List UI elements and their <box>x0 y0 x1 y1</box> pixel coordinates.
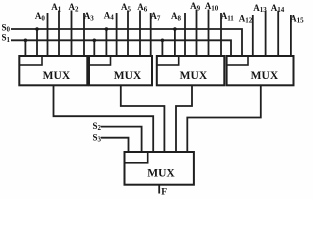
svg-text:MUX: MUX <box>180 70 208 82</box>
svg-text:S3: S3 <box>93 132 102 143</box>
svg-text:A6: A6 <box>137 2 148 13</box>
svg-text:A15: A15 <box>290 14 304 25</box>
svg-text:A1: A1 <box>51 2 62 13</box>
svg-text:S1: S1 <box>2 33 11 44</box>
svg-text:A13: A13 <box>253 3 267 14</box>
svg-text:A14: A14 <box>271 3 285 14</box>
svg-text:MUX: MUX <box>114 70 142 82</box>
svg-text:A7: A7 <box>150 11 161 22</box>
svg-text:A0: A0 <box>35 11 46 22</box>
svg-text:A12: A12 <box>239 14 253 25</box>
svg-text:A10: A10 <box>205 1 219 12</box>
svg-text:A2: A2 <box>69 2 80 13</box>
svg-text:MUX: MUX <box>43 70 71 82</box>
svg-text:A9: A9 <box>190 1 201 12</box>
svg-text:A11: A11 <box>221 11 235 22</box>
svg-text:A8: A8 <box>171 11 182 22</box>
svg-text:A5: A5 <box>121 2 132 13</box>
svg-text:A3: A3 <box>84 11 95 22</box>
svg-text:A4: A4 <box>104 11 115 22</box>
svg-text:MUX: MUX <box>251 70 279 82</box>
svg-text:MUX: MUX <box>147 167 175 179</box>
svg-text:F: F <box>161 187 167 197</box>
svg-text:S2: S2 <box>93 121 102 132</box>
